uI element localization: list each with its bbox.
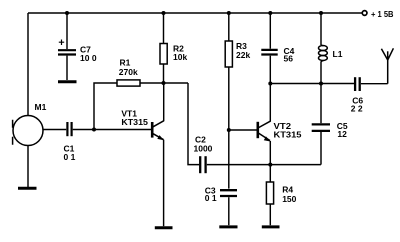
- wire VT1 emitter to ground: [163, 140, 165, 227]
- microphone M1: [13, 102, 47, 146]
- wire C2 to emitter node and R4: [207, 164, 321, 166]
- transistor VT1 KT315: [121, 83, 163, 140]
- ground C7: [58, 80, 77, 83]
- node dot VT2 base junction: [227, 128, 231, 132]
- capacitor C3: [205, 186, 237, 226]
- resistor R4: [266, 165, 296, 226]
- node dot tank wire at L1: [319, 82, 323, 86]
- terminal +1.5V supply: [362, 9, 393, 19]
- node dot top rail at R3: [227, 11, 231, 15]
- wire VT2 collector to tank node: [269, 84, 271, 122]
- wire VT2 base lead: [229, 129, 257, 131]
- svg-text:M1: M1: [35, 102, 47, 112]
- node dot top rail at C4: [268, 11, 272, 15]
- svg-text:L1: L1: [333, 49, 343, 59]
- svg-text:10k: 10k: [173, 52, 187, 62]
- wire left drop to microphone: [27, 13, 29, 116]
- capacitor C2: [194, 134, 213, 173]
- inductor L1: [319, 13, 343, 84]
- svg-text:56: 56: [284, 53, 294, 63]
- resistor R2: [160, 13, 187, 83]
- antenna WA1: [381, 48, 393, 83]
- svg-text:270k: 270k: [119, 67, 138, 77]
- svg-text:2 2: 2 2: [351, 103, 363, 113]
- svg-text:KT315: KT315: [121, 117, 148, 127]
- svg-text:1000: 1000: [194, 144, 213, 154]
- ground C3: [219, 225, 237, 228]
- node dot R1/R2/collector junction: [162, 81, 166, 85]
- ground microphone: [18, 187, 37, 190]
- resistor R3: [225, 13, 250, 189]
- node dot top rail at R2: [162, 11, 166, 15]
- ground R4: [262, 225, 280, 228]
- wire C2 riser from collector node: [188, 83, 199, 165]
- svg-text:10 0: 10 0: [80, 53, 97, 63]
- wire microphone bottom lead: [27, 146, 29, 187]
- resistor R1: [94, 58, 164, 130]
- node dot emitter/R4 junction: [268, 163, 272, 167]
- node dot top rail at L1: [319, 11, 323, 15]
- capacitor C1: [64, 122, 76, 162]
- capacitor C6: [351, 77, 364, 113]
- svg-text:0 1: 0 1: [205, 193, 217, 203]
- svg-text:12: 12: [337, 129, 347, 139]
- wire tank node horizontal: [270, 83, 354, 85]
- wire VT2 emitter down: [269, 141, 271, 165]
- svg-text:KT315: KT315: [274, 130, 302, 140]
- wire C1 to VT1 base: [73, 129, 152, 131]
- svg-text:+ 1 5B: + 1 5B: [371, 9, 394, 19]
- svg-text:22k: 22k: [236, 50, 250, 60]
- svg-text:150: 150: [282, 194, 296, 204]
- node dot top rail at C7: [65, 11, 69, 15]
- wire mic to C1: [43, 129, 66, 131]
- node dot R1 to base wire: [92, 128, 96, 132]
- transistor VT2 KT315: [258, 121, 302, 142]
- wire C6 to antenna riser: [361, 83, 388, 85]
- node dot tank wire at C4: [268, 82, 272, 86]
- wire top supply rail: [28, 12, 362, 14]
- capacitor C4: [261, 13, 294, 84]
- svg-text:0 1: 0 1: [64, 152, 76, 162]
- ground VT1 emitter: [155, 226, 173, 229]
- wire collector node to C2 riser: [164, 82, 189, 84]
- capacitor C5: [312, 84, 348, 165]
- capacitor C7: [58, 13, 97, 80]
- svg-text:R4: R4: [282, 185, 293, 195]
